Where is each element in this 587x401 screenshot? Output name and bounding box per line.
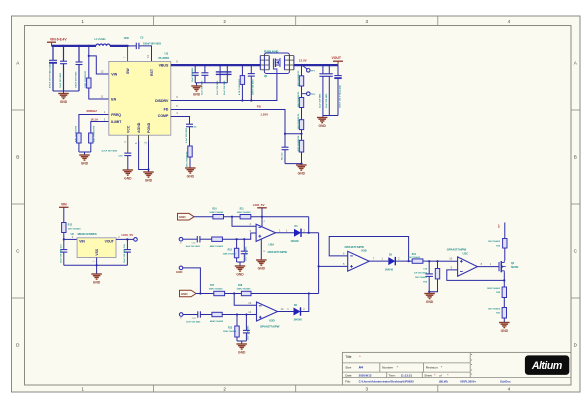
svg-text:22uF 25V 0805: 22uF 25V 0805: [326, 93, 328, 108]
svg-text:Sheet: Sheet: [424, 374, 432, 378]
svg-text:4: 4: [508, 387, 511, 392]
svg-text:SW: SW: [126, 68, 130, 74]
resistor R3 FREQ set: [77, 133, 81, 143]
port circle input2: [179, 313, 183, 317]
svg-text:3.3nF 50V 0603: 3.3nF 50V 0603: [186, 127, 188, 143]
ground COMP network: [189, 157, 191, 168]
resistor R4 ILIMIT set: [89, 133, 93, 143]
wire ILIMIT pin: [91, 122, 109, 134]
wire AGND pin: [138, 135, 140, 140]
svg-text:Date:: Date:: [345, 374, 352, 378]
capacitor C17 ldo input: [63, 239, 65, 249]
wire D4 to summing node: [301, 232, 319, 234]
ground Q2 chain: [503, 318, 505, 323]
resistor R14: [412, 259, 423, 263]
capacitor C12 gate drive: [250, 64, 252, 66]
wire FREQ pin: [79, 115, 109, 134]
wire EN pin 11: [89, 88, 109, 99]
svg-text:R17: R17: [210, 285, 215, 287]
svg-text:100nF 50V 0603: 100nF 50V 0603: [143, 43, 161, 46]
svg-text:ILIMIT: ILIMIT: [111, 120, 122, 124]
wire U2 VSS to ground rail: [96, 258, 98, 266]
svg-text:100K 1%0603: 100K 1%0603: [237, 212, 252, 214]
svg-text:4: 4: [508, 19, 511, 24]
svg-text:R18: R18: [238, 285, 243, 287]
svg-text:GND: GND: [319, 124, 327, 128]
svg-text:GND: GND: [93, 281, 101, 285]
title block row lines: [342, 362, 470, 364]
svg-text:L1 2.2uH: L1 2.2uH: [95, 37, 106, 41]
capacitor C18 ldo output: [126, 238, 128, 240]
svg-text:1: 1: [81, 19, 84, 24]
svg-text:GND: GND: [145, 179, 153, 183]
svg-text:470uF 16V 8*7(8mm)(E): 470uF 16V 8*7(8mm)(E): [48, 64, 51, 88]
svg-text:10nF 50V 0603: 10nF 50V 0603: [248, 325, 250, 340]
svg-text:VBUS: VBUS: [159, 63, 169, 67]
svg-text:FREQ: FREQ: [111, 113, 121, 117]
resistor R11: [240, 215, 251, 219]
wire D5 to R14: [395, 260, 412, 262]
svg-text:R12: R12: [68, 225, 73, 227]
resistor R1 100K EN pullup: [88, 45, 90, 47]
capacitor C2 470uF input bulk: [52, 45, 54, 47]
node SW junction: [126, 45, 128, 47]
wire inverting input pin 2: [232, 217, 256, 227]
resistor R6 divider: [301, 108, 303, 120]
ground input2 shunt: [241, 341, 243, 344]
capacitor C19: [428, 261, 430, 274]
ground LDO: [96, 265, 98, 274]
svg-text:10uF 16V 0603 C17: 10uF 16V 0603 C17: [60, 243, 62, 263]
capacitor C16 FB compensation: [284, 133, 286, 135]
svg-text:100K 1%0603: 100K 1%0603: [223, 331, 237, 333]
ground R3 R4: [84, 152, 86, 155]
wire U3A output: [276, 232, 295, 234]
wire U3D output: [278, 311, 294, 313]
capacitor C10 VCC: [124, 152, 131, 154]
svg-text:1N4148: 1N4148: [291, 240, 300, 243]
wire Q2 source to R20: [503, 273, 505, 288]
resistor R17: [214, 291, 225, 295]
svg-text:10uF 16V 0603 C18: 10uF 16V 0603 C18: [124, 243, 126, 263]
wire shunt ground rail1: [236, 258, 238, 262]
svg-text:Q1: Q1: [264, 74, 268, 78]
svg-text:GND: GND: [187, 175, 195, 179]
port circle LDO_5V output: [134, 238, 138, 242]
test point TP1: [307, 69, 311, 73]
svg-text:22uF 25V 0805: 22uF 25V 0805: [224, 80, 226, 95]
svg-text:R10: R10: [212, 208, 217, 210]
svg-text:10nF 50V 0603: 10nF 50V 0603: [192, 67, 194, 82]
svg-text:100uF 16V 5*7(5mm)(E): 100uF 16V 5*7(5mm)(E): [340, 85, 342, 108]
svg-text:RST: RST: [150, 68, 154, 76]
wire input rail: [52, 45, 97, 47]
svg-text:VOUT: VOUT: [332, 56, 342, 60]
svg-text:U3B: U3B: [361, 248, 367, 252]
wire 13.0V output rail: [294, 64, 338, 66]
svg-text:499K 1%0603: 499K 1%0603: [210, 320, 224, 323]
resistor R2 divider top: [301, 64, 303, 66]
capacitor C15 COMP: [186, 123, 193, 125]
transistor Q2 SI2302: [498, 262, 500, 271]
svg-text:ME6211C50M5G: ME6211C50M5G: [78, 233, 97, 236]
wire R12 to U2 VIN: [63, 233, 65, 240]
svg-text:10nF 50V 0603: 10nF 50V 0603: [246, 246, 248, 261]
svg-text:36K 1%0603 R9: 36K 1%0603 R9: [186, 151, 188, 167]
wire R17 R18 node: [225, 293, 242, 295]
Altium logo: [525, 355, 569, 375]
title block column lines: [469, 352, 471, 377]
wire input cap ground rail: [53, 90, 79, 92]
ground divider: [296, 164, 307, 166]
diode D4 1N4148: [294, 229, 301, 237]
svg-text:1040: 1040: [124, 37, 130, 40]
svg-text:22uF 25V 0805: 22uF 25V 0805: [202, 80, 204, 95]
svg-text:100K 1%0603: 100K 1%0603: [209, 212, 224, 214]
svg-text:Size: Size: [345, 366, 351, 370]
wire rail after L1: [110, 45, 128, 47]
svg-text:EN: EN: [111, 97, 116, 101]
svg-text:43K 1%0603 R4: 43K 1%0603 R4: [93, 125, 96, 142]
svg-text:10K 1%0603: 10K 1%0603: [488, 241, 501, 243]
diode D6 1N4148: [294, 308, 301, 316]
svg-text:22uF 25V 0805: 22uF 25V 0805: [217, 80, 219, 95]
svg-text:LDO_5V: LDO_5V: [253, 203, 265, 207]
wire U3B feedback loop: [329, 237, 408, 262]
svg-text:1N4148: 1N4148: [294, 319, 303, 322]
svg-text:1N4148: 1N4148: [385, 268, 394, 271]
port circle input1: [179, 237, 183, 241]
svg-text:PGND: PGND: [147, 122, 151, 133]
wire U3C pin9 feedback: [447, 270, 505, 281]
capacitor C22 input2 shunt: [245, 315, 247, 331]
svg-text:VSS: VSS: [95, 248, 99, 255]
wire to R12a: [200, 238, 212, 240]
svg-text:U3D: U3D: [269, 318, 275, 322]
wire SW pin stub: [127, 46, 129, 62]
resistor R12a input1: [212, 237, 223, 241]
wire U3D pin13: [234, 294, 256, 306]
IC U2 ME6211 body: [77, 238, 116, 258]
capacitor C1 10uF: [62, 45, 64, 47]
svg-text:GND: GND: [238, 351, 246, 355]
svg-text:R14: R14: [412, 253, 417, 256]
svg-text:15K 1%0603: 15K 1%0603: [488, 308, 501, 310]
capacitor C7 C9 bulk pair: [219, 64, 221, 66]
capacitor C20 input2: [197, 311, 199, 317]
svg-text:NC C16: NC C16: [281, 152, 283, 160]
resistor R13b input2 shunt: [236, 315, 238, 327]
svg-text:V2\PL3050+: V2\PL3050+: [460, 380, 476, 384]
svg-text:OPA4377AIPW: OPA4377AIPW: [268, 250, 288, 254]
port GND arrow input2: [180, 290, 197, 297]
svg-text:15K 1%0603: 15K 1%0603: [415, 277, 428, 279]
svg-text:LDO_5V: LDO_5V: [122, 233, 134, 237]
capacitor C6: [194, 64, 196, 66]
svg-text:12V: 12V: [499, 224, 501, 228]
svg-text:VCC: VCC: [126, 125, 130, 133]
svg-text:SI2302: SI2302: [511, 267, 519, 269]
resistor R8 divider bottom: [301, 130, 303, 141]
wire VIN pin 12: [89, 56, 109, 74]
wire input1 to pin3: [222, 233, 256, 239]
ground input caps: [63, 91, 65, 94]
svg-text:Title: Title: [345, 355, 351, 359]
ground output caps: [322, 116, 324, 118]
wire summing vertical: [318, 233, 320, 294]
svg-text:R13: R13: [228, 250, 233, 252]
diode D5 1N4148: [388, 257, 395, 265]
wire to R17: [196, 293, 214, 295]
svg-text:GND: GND: [501, 329, 509, 333]
svg-text:1uF 16V 0603: 1uF 16V 0603: [414, 273, 428, 275]
svg-text:39K 1%0603 R5: 39K 1%0603 R5: [298, 91, 300, 107]
wire U3C output to Q2 gate: [477, 266, 499, 268]
svg-text:VIN 6-8.4V: VIN 6-8.4V: [50, 38, 67, 42]
capacitor C8: [204, 64, 206, 66]
svg-text:16K 1%0603 R6: 16K 1%0603 R6: [298, 113, 300, 129]
wire R10 R11 node: [224, 216, 241, 218]
svg-text:VOUT: VOUT: [105, 240, 114, 244]
capacitor C13 output: [322, 64, 324, 66]
wire divider to ground: [301, 152, 303, 164]
svg-text:47K 1%0603 R2: 47K 1%0603 R2: [297, 70, 300, 86]
svg-text:600KHZ: 600KHZ: [87, 109, 98, 113]
svg-text:VIN: VIN: [79, 240, 85, 244]
svg-text:10K 1%0603: 10K 1%0603: [68, 228, 81, 230]
svg-text:2020/6/12: 2020/6/12: [359, 374, 372, 378]
svg-text:PL3050: PL3050: [159, 56, 170, 60]
wire VBUS rail: [171, 64, 260, 66]
svg-text:AGND: AGND: [137, 122, 141, 133]
svg-text:U3C: U3C: [463, 252, 469, 256]
wire R11 to feedback node: [251, 216, 309, 218]
svg-text:11:13:21: 11:13:21: [401, 374, 413, 378]
wire to R15a: [200, 314, 212, 316]
svg-text:OPA4377AIPW: OPA4377AIPW: [260, 325, 280, 329]
svg-text:82K 1%0603 R3: 82K 1%0603 R3: [75, 125, 77, 142]
resistor R13 input1 shunt: [236, 239, 238, 248]
wire R14 to U3C pin10: [423, 260, 458, 262]
svg-text:100R 1%0603: 100R 1%0603: [487, 288, 501, 290]
svg-text:Time:: Time:: [389, 374, 396, 378]
svg-text:22uF 25V 0805: 22uF 25V 0805: [320, 93, 322, 108]
svg-text:1: 1: [81, 387, 84, 392]
svg-text:GND: GND: [426, 300, 434, 304]
resistor R21: [503, 298, 505, 308]
svg-text:GND: GND: [176, 270, 182, 274]
svg-text:GND: GND: [60, 100, 68, 104]
svg-text:10uF 16V 0603: 10uF 16V 0603: [186, 246, 201, 248]
IC U1 PL3050 body: [109, 62, 171, 136]
capacitor C10a input1: [196, 236, 198, 242]
port GND arrow input1: [178, 213, 195, 220]
svg-text:10K 1%0603: 10K 1%0603: [408, 257, 421, 259]
test point TP2: [307, 92, 311, 96]
wire output cap ground rail: [323, 115, 338, 117]
svg-text:Revision: Revision: [426, 366, 438, 370]
title block outer: [342, 352, 571, 385]
svg-text:100K 1%0603: 100K 1%0603: [209, 289, 224, 291]
border column tick marks: [153, 16, 155, 26]
svg-text:FD: FD: [164, 108, 169, 112]
svg-text:4.7K 1%0603 R7: 4.7K 1%0603 R7: [238, 78, 241, 95]
resistor R18: [241, 291, 251, 295]
svg-text:3: 3: [366, 19, 369, 24]
wire U2 VOUT to LDO_5V: [116, 238, 134, 240]
capacitor C11 output: [328, 64, 330, 66]
svg-text:GND: GND: [298, 172, 306, 176]
wire GND circle to R17 node: [183, 268, 201, 294]
op-amp U3A: [256, 224, 275, 241]
resistor R20: [502, 287, 506, 298]
wire PGND pin: [148, 135, 150, 140]
svg-text:2: 2: [223, 387, 226, 392]
svg-text:GND: GND: [193, 93, 201, 97]
svg-text:R11: R11: [240, 208, 245, 210]
wire RST pin: [139, 46, 152, 62]
wire input2 to pin12: [222, 314, 256, 316]
wire VBUS cap ground rail: [195, 82, 227, 84]
svg-text:B: B: [16, 155, 19, 160]
wire R18 feedback to summing: [251, 293, 319, 295]
capacitor C4 100nF: [78, 45, 80, 47]
svg-text:GND: GND: [81, 162, 89, 166]
op-amp U3D: [257, 302, 278, 321]
svg-text:4.7K 1%0603 R8: 4.7K 1%0603 R8: [297, 135, 300, 152]
svg-text:100nF 50V 0603: 100nF 50V 0603: [76, 71, 78, 88]
svg-text:100K 1%0603 R1: 100K 1%0603 R1: [85, 70, 87, 88]
svg-text:U3A: U3A: [269, 242, 275, 246]
resistor R16 drain: [503, 239, 507, 249]
svg-text:GND: GND: [124, 177, 132, 181]
resistor R9 COMP: [188, 146, 192, 157]
wire R3 R4 ground rail: [78, 143, 80, 152]
svg-text:13.0V: 13.0V: [299, 59, 307, 63]
ground input1 shunt: [239, 262, 241, 266]
resistor R19: [437, 261, 439, 268]
svg-text:100K 1%0603: 100K 1%0603: [237, 289, 252, 291]
resistor R15a input2: [212, 312, 222, 316]
svg-text:C:\Users\Administrator\Desktop: C:\Users\Administrator\Desktop\UP9625: [359, 380, 414, 384]
svg-text:100nF 50V 0603: 100nF 50V 0603: [253, 79, 255, 95]
svg-text:J1: J1: [180, 242, 182, 244]
svg-text:B: B: [574, 155, 577, 160]
svg-text:VIN: VIN: [61, 203, 67, 207]
inductor L1 2.2uH: [96, 44, 110, 46]
wire R16 to Q2 drain: [504, 248, 506, 261]
wire input1: [183, 238, 198, 240]
svg-text:Number: Number: [382, 366, 393, 370]
svg-text:100K 1%0603: 100K 1%0603: [223, 253, 237, 255]
svg-text:3: 3: [366, 387, 369, 392]
svg-text:499K 1%0603: 499K 1%0603: [210, 245, 224, 248]
svg-text:VIN: VIN: [111, 72, 117, 76]
ground U3A pin 11: [260, 239, 262, 260]
ground C19 R19: [428, 291, 430, 293]
capacitor C5 100nF: [128, 45, 137, 47]
svg-text:GND: GND: [181, 292, 189, 296]
resistor R12: [62, 223, 66, 233]
op-amp U3B: [348, 251, 370, 271]
wire shunt ground rail2: [236, 337, 238, 341]
svg-text:R13: R13: [228, 327, 233, 329]
svg-text:10uF 16V 0603: 10uF 16V 0603: [186, 322, 201, 324]
svg-text:Altium: Altium: [531, 360, 562, 372]
wire VCC pin decoupling: [127, 135, 129, 153]
svg-text:J2: J2: [180, 318, 182, 320]
svg-text:File:: File:: [345, 380, 351, 384]
resistor R5 divider: [301, 86, 303, 98]
ground PGND: [143, 171, 154, 173]
svg-text:A4: A4: [359, 366, 363, 370]
svg-text:of: of: [439, 374, 442, 378]
svg-text:DISDRV: DISDRV: [155, 99, 169, 103]
svg-text:(BLW): (BLW): [439, 380, 447, 384]
svg-text:SchDoc: SchDoc: [500, 380, 511, 384]
port circle GND mid: [179, 266, 183, 270]
svg-text:4.7uF 16V 0603: 4.7uF 16V 0603: [102, 149, 118, 152]
resistor R10: [213, 215, 224, 219]
svg-text:COMP: COMP: [158, 114, 169, 118]
wire to U3B pin5: [319, 265, 348, 267]
svg-text:1.20V: 1.20V: [260, 112, 268, 116]
wire D6 to summing node: [301, 294, 309, 312]
wire to R10: [194, 216, 213, 218]
capacitor C21 input1 shunt: [243, 239, 245, 251]
ground VCC cap: [123, 169, 134, 171]
svg-text:GND: GND: [179, 215, 187, 219]
border row tick marks: [12, 109, 25, 111]
op-amp U3C: [458, 257, 478, 276]
capacitor C14 output bulk: [337, 65, 339, 76]
wire U3B output: [369, 260, 388, 262]
svg-text:2: 2: [223, 19, 226, 24]
wire feedback down from R11: [308, 217, 310, 233]
wire input2: [183, 314, 198, 316]
svg-text:10uF 25V 0805: 10uF 25V 0805: [60, 72, 62, 88]
ground VBUS caps: [196, 83, 198, 86]
resistor R7 gate drive: [241, 64, 243, 66]
svg-text:GND: GND: [236, 273, 244, 277]
svg-text:GND: GND: [258, 267, 266, 271]
